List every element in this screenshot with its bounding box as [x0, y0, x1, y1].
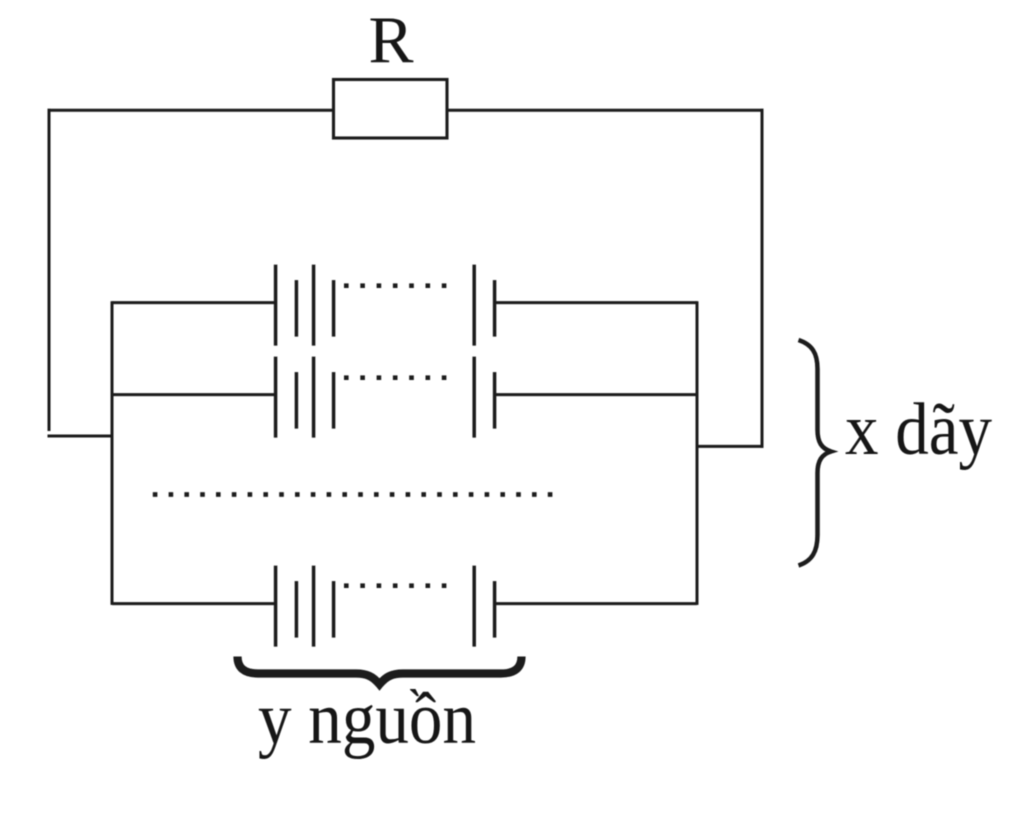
wire right jog	[697, 445, 764, 448]
wire inner left rail	[111, 301, 114, 605]
battery cells row 1	[276, 265, 495, 346]
dots row 1	[344, 283, 446, 288]
svg-text:x dãy: x dãy	[845, 389, 992, 471]
dots row 2	[344, 375, 446, 380]
wire top right	[447, 109, 764, 112]
resistor R	[334, 80, 448, 139]
wire row 1 left	[112, 301, 274, 304]
wire row x right	[496, 602, 697, 605]
wire outer left rail	[48, 109, 51, 431]
battery cells row x	[276, 566, 495, 647]
wire top left	[48, 109, 334, 112]
brace y sources	[238, 657, 522, 685]
wire outer right rail	[761, 109, 764, 448]
brace x rows	[799, 340, 832, 566]
dotted continuation of rows	[153, 492, 553, 497]
svg-text:R: R	[369, 3, 414, 77]
wire row x left	[112, 602, 274, 605]
battery cells row 2	[276, 357, 495, 438]
wire inner right rail	[696, 301, 699, 605]
wire left jog	[48, 435, 113, 438]
wire row 2 left	[112, 393, 274, 396]
dots row x	[344, 583, 446, 588]
wire row 1 right	[496, 301, 697, 304]
wire row 2 right	[496, 393, 697, 396]
svg-text:y nguồn: y nguồn	[258, 678, 476, 760]
